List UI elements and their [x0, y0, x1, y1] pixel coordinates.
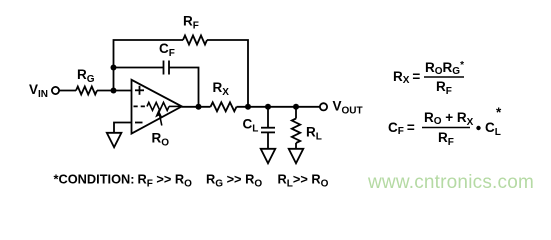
- node junction CF tap: [111, 65, 117, 71]
- wire CF branch right to op-amp output: [170, 68, 199, 107]
- svg-text:RX: RX: [213, 80, 230, 98]
- node junction RL tap: [293, 104, 299, 110]
- ground below CL: [261, 149, 276, 164]
- svg-text:*: *: [496, 105, 502, 120]
- svg-text:RG: RG: [77, 67, 95, 85]
- op-amp - input symbol: [135, 122, 143, 124]
- svg-text:VOUT: VOUT: [333, 99, 363, 117]
- resistor RO internal: [147, 102, 169, 110]
- wire RL branch upper: [295, 107, 297, 119]
- wire RX to VOUT: [237, 106, 321, 108]
- svg-text:RF: RF: [183, 14, 199, 32]
- wire RF to output node: [207, 40, 248, 107]
- svg-text:RL: RL: [306, 125, 322, 143]
- node junction CF return: [196, 104, 202, 110]
- wire RO to op-amp apex: [169, 105, 180, 107]
- node junction CL tap: [265, 104, 271, 110]
- node VIN terminal: [52, 87, 59, 94]
- ground at - input: [107, 133, 122, 148]
- svg-text:RORG*: RORG*: [425, 60, 464, 77]
- resistor RL: [292, 119, 300, 144]
- svg-text:RG >> RO: RG >> RO: [206, 171, 262, 189]
- svg-text:CF=: CF=: [388, 120, 415, 137]
- op-amp U1 triangle: [132, 80, 182, 134]
- svg-text:RF: RF: [438, 130, 454, 148]
- ground below RL: [289, 149, 304, 164]
- svg-text:RX=: RX=: [393, 69, 420, 86]
- wire - input to ground: [114, 123, 132, 133]
- svg-text:CL: CL: [485, 120, 501, 138]
- wire vertical feedback riser: [114, 40, 184, 91]
- node VOUT terminal: [320, 103, 327, 110]
- node junction at + input: [111, 88, 117, 94]
- resistor RX: [211, 102, 237, 111]
- svg-text:RO + RX: RO + RX: [424, 110, 474, 128]
- svg-text:CL: CL: [243, 117, 259, 135]
- capacitor CF: [163, 61, 165, 75]
- node junction RF return: [245, 104, 251, 110]
- wire VIN to RG: [59, 90, 76, 92]
- wire RG to op-amp + input: [97, 90, 132, 92]
- svg-text:*CONDITION:: *CONDITION:: [54, 171, 135, 186]
- wire CL branch lower: [267, 133, 269, 149]
- wire CL branch upper: [267, 107, 269, 127]
- svg-text:RF >> RO: RF >> RO: [138, 171, 193, 189]
- svg-text:RF: RF: [436, 79, 452, 97]
- svg-text:RO: RO: [152, 131, 170, 149]
- wire op-amp output to RX: [182, 106, 211, 108]
- resistor RG: [76, 87, 97, 95]
- svg-text:VIN: VIN: [29, 82, 48, 100]
- capacitor CL: [261, 127, 275, 129]
- label RO with arrow: [160, 116, 162, 126]
- svg-text:RL>> RO: RL>> RO: [278, 171, 329, 189]
- svg-text:CF: CF: [159, 41, 175, 59]
- wire RL branch lower: [295, 143, 297, 149]
- wire CF branch left: [114, 67, 164, 69]
- svg-text:www.cntronics.com: www.cntronics.com: [367, 172, 534, 193]
- wire dashed internal output resistance lead: [134, 105, 148, 107]
- resistor RF: [183, 36, 207, 45]
- op-amp + input symbol: [135, 89, 144, 91]
